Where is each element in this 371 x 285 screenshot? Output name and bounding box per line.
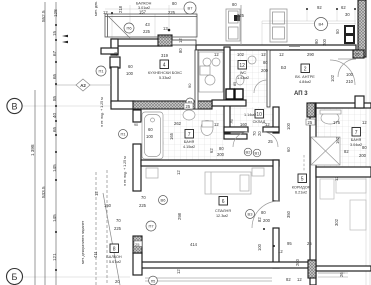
svg-text:БАЛКОН: БАЛКОН: [106, 255, 122, 259]
scattered dims: [93, 52, 367, 284]
svg-text:мет. дек.: мет. дек.: [94, 1, 98, 16]
svg-text:298: 298: [177, 212, 182, 220]
svg-text:БАНЯ: БАНЯ: [184, 140, 195, 144]
svg-text:1.43м2: 1.43м2: [237, 76, 249, 80]
svg-text:100: 100: [126, 71, 134, 76]
svg-text:WC: WC: [240, 71, 247, 75]
svg-text:КУХНЕНСКИ БОКС: КУХНЕНСКИ БОКС: [148, 71, 183, 75]
svg-text:200: 200: [261, 68, 269, 73]
svg-text:80: 80: [178, 48, 183, 53]
svg-text:7: 7: [188, 132, 191, 138]
svg-text:П1: П1: [120, 132, 126, 137]
chain arrows: [62, 35, 68, 43]
svg-text:100: 100: [257, 243, 262, 251]
svg-text:н ет. под. + 1.25 м: н ет. под. + 1.25 м: [100, 97, 104, 127]
svg-text:12: 12: [214, 122, 219, 127]
hatched columns: [133, 0, 366, 278]
svg-text:КОРИДОР: КОРИДОР: [292, 186, 311, 190]
svg-text:12: 12: [362, 120, 367, 125]
bedroom top wall: [141, 160, 279, 166]
svg-text:160: 160: [240, 122, 248, 127]
svg-text:121: 121: [52, 253, 57, 261]
svg-text:20: 20: [115, 279, 120, 284]
svg-text:13: 13: [163, 26, 168, 31]
chain ticks: [55, 24, 57, 271]
svg-text:200: 200: [263, 218, 271, 223]
fixtures: kitchen: [199, 52, 223, 92]
left wall bottom piece: [133, 253, 142, 275]
svg-text:92: 92: [317, 5, 322, 10]
svg-text:82: 82: [286, 277, 291, 282]
svg-text:П1: П1: [98, 69, 104, 74]
WC fixture squares: [226, 89, 243, 99]
svg-text:8: 8: [113, 247, 116, 253]
svg-text:90: 90: [134, 123, 138, 127]
svg-text:20: 20: [257, 131, 262, 136]
svg-text:62: 62: [341, 5, 346, 10]
svg-text:290: 290: [307, 52, 315, 57]
svg-text:В4: В4: [319, 22, 325, 27]
svg-text:80: 80: [362, 145, 367, 150]
svg-text:6.21м2: 6.21м2: [295, 191, 307, 195]
svg-text:В6: В6: [161, 198, 167, 203]
svg-text:85: 85: [233, 82, 237, 86]
svg-text:162: 162: [335, 136, 340, 144]
svg-text:350: 350: [286, 210, 291, 218]
svg-text:30: 30: [345, 12, 350, 17]
svg-text:200: 200: [295, 258, 300, 266]
svg-text:225: 225: [114, 226, 122, 231]
svg-text:414: 414: [190, 242, 198, 247]
svg-text:76: 76: [229, 119, 234, 124]
svg-text:1 398: 1 398: [30, 144, 35, 156]
svg-text:319: 319: [161, 53, 169, 58]
svg-text:82: 82: [257, 217, 262, 222]
bottom window lines below bedroom: [145, 273, 345, 281]
svg-text:552.5: 552.5: [41, 10, 46, 22]
svg-text:10: 10: [256, 112, 262, 118]
svg-text:В1: В1: [255, 151, 261, 156]
storage top wall: [212, 100, 246, 106]
entry right column: [355, 96, 364, 108]
svg-text:6: 6: [222, 199, 225, 205]
svg-text:80: 80: [172, 1, 177, 6]
svg-text:АП 3: АП 3: [294, 91, 308, 97]
svg-text:1.14м2: 1.14м2: [244, 113, 256, 117]
svg-text:12: 12: [261, 52, 266, 57]
svg-text:7: 7: [355, 130, 358, 136]
bottom right room furniture: [318, 179, 366, 277]
svg-text:65: 65: [52, 73, 57, 79]
kitchen left wall: [111, 67, 118, 103]
bottom right room bottom wall: [316, 266, 371, 271]
svg-text:12: 12: [103, 10, 108, 15]
svg-text:411: 411: [93, 251, 98, 258]
SW balcony: [96, 170, 120, 285]
svg-text:302: 302: [334, 218, 339, 226]
WC left wall: [224, 47, 230, 133]
svg-text:4.15м2: 4.15м2: [183, 145, 195, 149]
svg-text:12: 12: [297, 277, 302, 282]
svg-text:80: 80: [232, 2, 237, 7]
svg-text:2: 2: [304, 67, 307, 73]
svg-text:70: 70: [116, 218, 121, 223]
svg-text:БАЛКОН: БАЛКОН: [136, 2, 152, 6]
svg-text:225: 225: [237, 13, 245, 18]
kitchen left step: [111, 39, 118, 55]
svg-text:25: 25: [268, 139, 273, 144]
fixtures: bath2 center: [142, 110, 213, 159]
svg-text:П6: П6: [126, 26, 132, 31]
svg-text:н ет. под. + 1.25 м: н ет. под. + 1.25 м: [123, 156, 127, 186]
bath1 bottom wall / room top wall: [316, 167, 371, 177]
svg-text:12: 12: [265, 122, 270, 127]
svg-text:В: В: [11, 102, 17, 112]
left dim labels (rotated): [30, 9, 58, 261]
svg-text:25: 25: [114, 52, 118, 56]
balcony2 planters: [226, 5, 287, 45]
svg-text:145: 145: [52, 164, 57, 172]
balcony1 diagonal: [108, 16, 130, 38]
WC / entry top wall: [196, 45, 356, 50]
svg-text:БАНЯ: БАНЯ: [351, 138, 362, 142]
dimension chain lines: [35, 2, 56, 285]
black square balcony2: [234, 15, 240, 21]
WC fixtures: [236, 56, 256, 85]
svg-text:82: 82: [344, 149, 349, 154]
svg-text:4.84м2: 4.84м2: [299, 80, 311, 84]
svg-text:62: 62: [209, 148, 214, 153]
fixtures: bath1 right: [311, 110, 341, 165]
svg-text:В2: В2: [246, 150, 252, 155]
svg-text:В3: В3: [248, 212, 254, 217]
svg-text:100: 100: [146, 134, 154, 139]
svg-text:25: 25: [135, 242, 140, 247]
bedroom/bath left wall: [133, 144, 141, 191]
storage right wall: [273, 107, 279, 133]
small white 25 box on hatch: [134, 52, 360, 247]
bedroom bottom wall: [141, 262, 311, 268]
svg-text:145: 145: [52, 214, 57, 222]
door arcs: [141, 59, 356, 228]
rotated margin notes: [81, 97, 127, 264]
svg-text:90: 90: [314, 39, 319, 44]
svg-text:157: 157: [139, 10, 147, 15]
thin partition: kitchen right wall: [172, 40, 270, 109]
dim dots: [111, 8, 356, 247]
svg-text:12: 12: [278, 249, 283, 254]
svg-text:102: 102: [330, 74, 335, 82]
svg-text:15: 15: [52, 30, 57, 36]
boxed numbers: [110, 60, 361, 253]
svg-text:12: 12: [178, 38, 183, 43]
bath2 left stub: [133, 110, 141, 122]
svg-text:12: 12: [334, 176, 339, 181]
bedroom right wall lower: [273, 228, 279, 268]
svg-text:мет. декоративен парапет: мет. декоративен парапет: [81, 221, 85, 264]
svg-text:210: 210: [346, 79, 354, 84]
svg-text:80: 80: [263, 60, 268, 65]
svg-text:225: 225: [143, 29, 151, 34]
svg-text:4: 4: [163, 63, 166, 69]
svg-text:43: 43: [145, 22, 150, 27]
svg-text:25: 25: [307, 241, 312, 246]
svg-text:218: 218: [118, 5, 123, 13]
kitchen top wall: [111, 39, 161, 46]
svg-text:12: 12: [176, 170, 181, 175]
svg-text:А2: А2: [80, 83, 86, 88]
A2 diamond marker: [55, 79, 111, 91]
svg-text:533.5: 533.5: [41, 186, 46, 198]
room label bubbles: [96, 2, 328, 231]
svg-text:225: 225: [168, 10, 176, 15]
svg-text:12: 12: [214, 52, 219, 57]
storage bottom walls: [224, 127, 248, 132]
dark shaft squares top right: [345, 26, 354, 43]
svg-text:90: 90: [187, 83, 192, 88]
bath1 top wall: [316, 103, 371, 108]
svg-text:25: 25: [355, 52, 360, 57]
svg-text:65: 65: [52, 126, 57, 132]
svg-text:95: 95: [287, 241, 292, 246]
svg-text:12: 12: [279, 52, 284, 57]
svg-text:80: 80: [261, 210, 266, 215]
svg-text:60: 60: [286, 147, 291, 152]
svg-text:128: 128: [53, 9, 58, 17]
svg-text:12: 12: [239, 63, 245, 69]
svg-text:СПАЛНЯ: СПАЛНЯ: [215, 209, 231, 213]
svg-text:СКЛАД: СКЛАД: [253, 120, 266, 124]
svg-text:150: 150: [104, 203, 112, 208]
svg-text:3.04м2: 3.04м2: [350, 143, 362, 147]
svg-text:200: 200: [359, 153, 367, 158]
svg-text:В7: В7: [188, 6, 194, 11]
room texts: [106, 71, 362, 264]
bottom window bubble: [149, 276, 158, 285]
svg-text:85: 85: [52, 95, 57, 101]
svg-text:102: 102: [237, 52, 245, 57]
kitchen bottom corner: [111, 101, 134, 109]
svg-text:100: 100: [346, 72, 354, 77]
tile floors: [163, 50, 366, 167]
svg-text:5.33м2: 5.33м2: [159, 76, 171, 80]
svg-text:70: 70: [141, 195, 146, 200]
svg-text:60: 60: [128, 64, 133, 69]
svg-text:5.67м2: 5.67м2: [109, 260, 121, 264]
bedroom right wall upper: [273, 160, 279, 201]
svg-text:12: 12: [176, 269, 181, 274]
svg-text:50: 50: [335, 29, 340, 34]
svg-text:25: 25: [308, 120, 313, 125]
svg-text:80: 80: [219, 146, 224, 151]
svg-text:175: 175: [333, 120, 341, 125]
svg-text:25: 25: [186, 104, 191, 109]
svg-text:26: 26: [339, 272, 344, 277]
bedroom furniture: [146, 168, 264, 194]
svg-text:165: 165: [169, 132, 174, 140]
svg-text:60: 60: [148, 127, 153, 132]
svg-text:Б: Б: [12, 272, 18, 282]
svg-text:262: 262: [174, 121, 182, 126]
balcony1 thin edges: [105, 14, 197, 37]
svg-text:5: 5: [301, 177, 304, 183]
svg-text:67: 67: [52, 50, 57, 56]
svg-text:12: 12: [94, 191, 99, 196]
svg-text:П5: П5: [151, 280, 156, 284]
svg-text:12.3м2: 12.3м2: [216, 214, 228, 218]
svg-text:П7: П7: [148, 224, 154, 229]
svg-text:ВХ. АНТРЕ: ВХ. АНТРЕ: [295, 75, 315, 79]
svg-text:200: 200: [217, 152, 225, 157]
top labels: [94, 1, 350, 53]
corridor right wall: [310, 103, 316, 285]
svg-text:200: 200: [322, 38, 327, 46]
svg-text:100: 100: [286, 122, 291, 130]
svg-text:40: 40: [52, 112, 57, 118]
svg-text:Б3: Б3: [281, 65, 287, 70]
svg-text:225: 225: [139, 203, 147, 208]
